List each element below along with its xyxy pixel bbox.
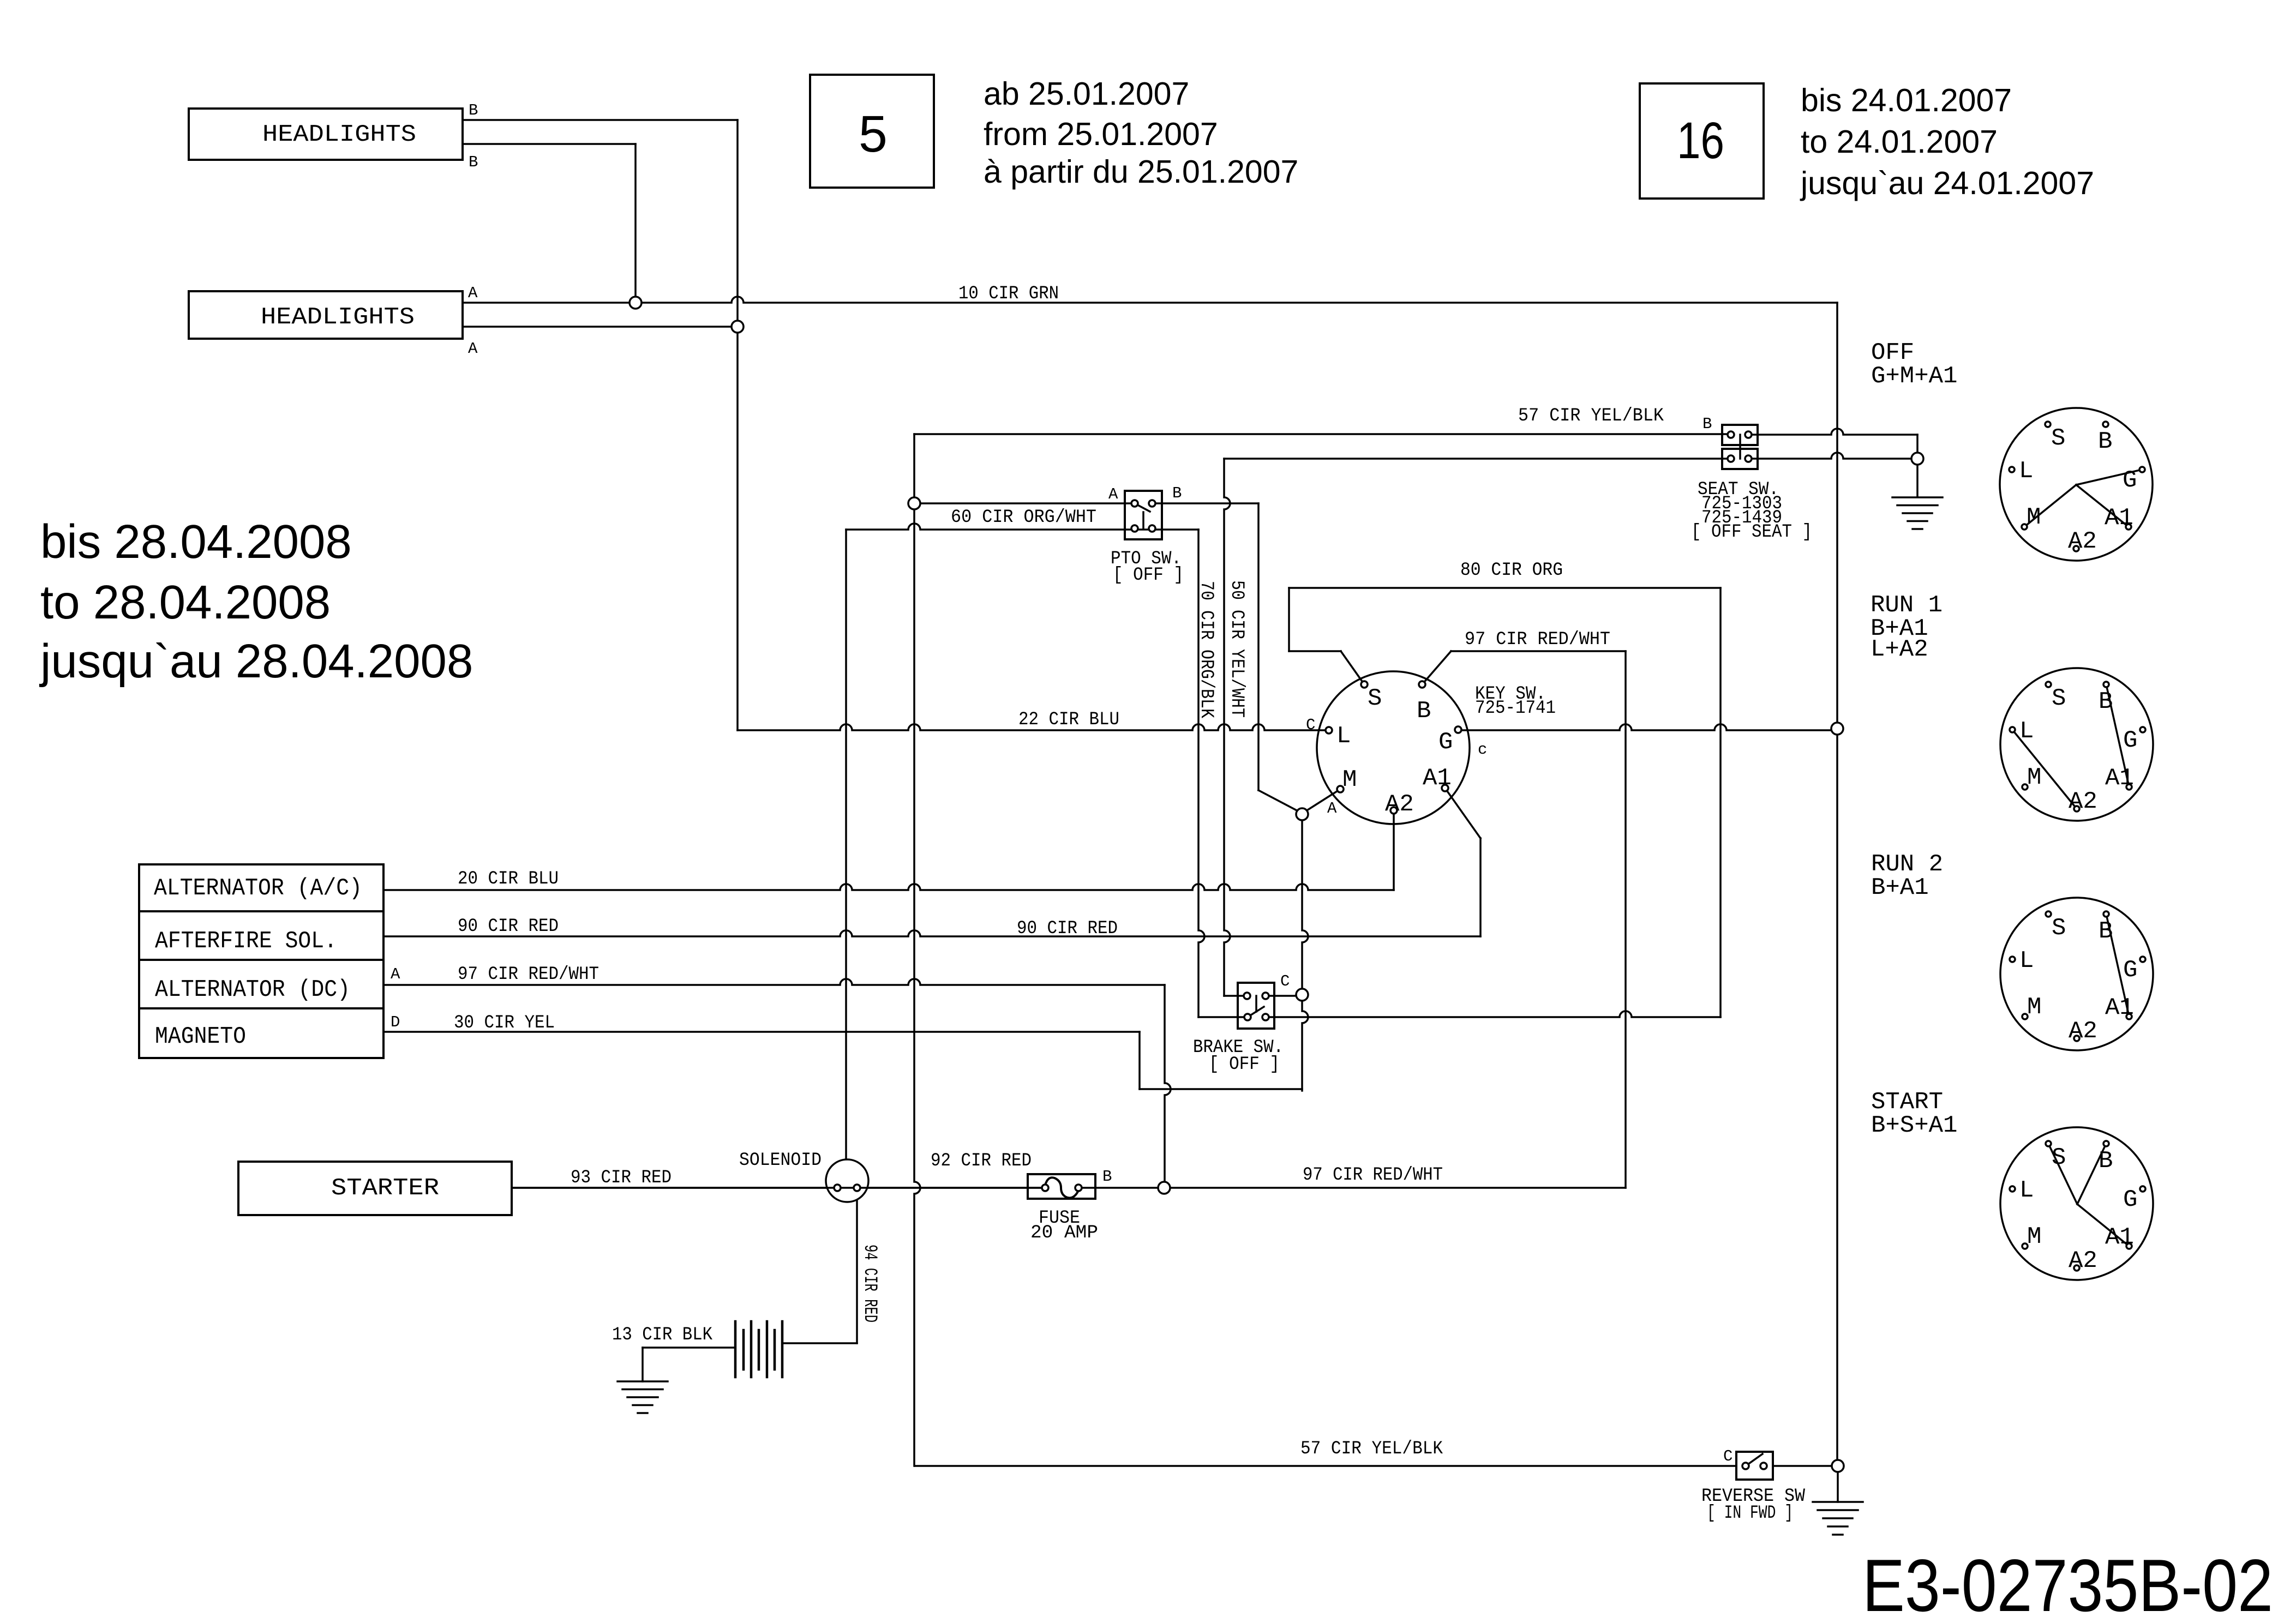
wire 97 CIR RED/WHT from B pin horizontal [1451, 650, 1626, 652]
svg-text:A: A [1108, 485, 1118, 503]
key switch U1 circle [1317, 671, 1470, 824]
svg-text:D: D [391, 1013, 400, 1031]
svg-text:50 CIR YEL/WHT: 50 CIR YEL/WHT [1226, 580, 1247, 718]
svg-text:S: S [1368, 685, 1382, 712]
wire key A drop to brake C [1302, 814, 1308, 1091]
wire diagonal PTO-B drop to A junction [1258, 790, 1299, 812]
wire 80 CIR ORG [1289, 587, 1720, 589]
wire 10 CIR GRN [463, 297, 1837, 303]
svg-text:G: G [2123, 957, 2137, 984]
svg-text:G: G [2123, 1186, 2137, 1213]
svg-text:HEADLIGHTS: HEADLIGHTS [262, 121, 416, 148]
svg-text:13 CIR BLK: 13 CIR BLK [612, 1325, 713, 1345]
brake switch box [1238, 983, 1274, 1029]
svg-text:C: C [1280, 972, 1290, 990]
wire 57 CIR YEL/BLK seat to ground drop [1748, 429, 1917, 435]
ground at seat switch [1892, 496, 1943, 498]
svg-text:G: G [1438, 729, 1453, 756]
svg-text:A: A [468, 284, 478, 302]
wire B from PTO switch [1152, 502, 1258, 504]
svg-text:S: S [2051, 425, 2065, 452]
svg-text:jusqu`au 24.01.2007: jusqu`au 24.01.2007 [1800, 165, 2094, 201]
wire 97 CIR RED/WHT fuse to riser [1078, 1187, 1626, 1189]
seat switch interconnect [1739, 435, 1741, 459]
junction nodes [630, 297, 642, 309]
svg-text:c: c [1478, 741, 1487, 759]
wire 97 CIR RED/WHT drop to fuse junction [1165, 985, 1171, 1188]
seat switch box lower [1722, 449, 1758, 469]
svg-text:10 CIR GRN: 10 CIR GRN [958, 284, 1059, 304]
wire PTO B drop [1257, 503, 1260, 790]
wire 60 CIR ORG/WHT through PTO bottom pins [846, 524, 1198, 530]
svg-text:A2: A2 [1385, 791, 1414, 818]
svg-text:B: B [1102, 1168, 1112, 1186]
wire diagonal A1 pin to riser [1445, 788, 1480, 838]
fuse element [1045, 1177, 1078, 1198]
svg-text:A1: A1 [2105, 994, 2134, 1021]
wire 97 CIR RED/WHT right vertical [1624, 651, 1627, 1188]
wire headlight B2 drop [634, 144, 637, 303]
svg-text:M: M [2027, 504, 2041, 531]
headlights box 2 [189, 291, 463, 339]
legend box 16 [1640, 83, 1764, 199]
svg-text:S: S [2052, 685, 2066, 712]
wire 97 CIR RED/WHT from alternator DC [383, 979, 1165, 985]
wire diagonal to S pin [1341, 651, 1364, 684]
wire 57 CIR YEL/BLK top left [914, 433, 1731, 435]
svg-text:E3-02735B-02: E3-02735B-02 [1862, 1544, 2273, 1623]
svg-text:G: G [2123, 727, 2137, 754]
wire 90 CIR RED [383, 930, 1480, 936]
wire diagonal M pin to A junction [1304, 789, 1340, 812]
svg-text:L: L [2019, 458, 2033, 485]
component pins [1131, 500, 1138, 507]
wire seat switch lower right to ground junction [1748, 453, 1917, 459]
svg-text:to 24.01.2007: to 24.01.2007 [1801, 124, 1998, 160]
wire headlight1 pin B top [463, 119, 738, 121]
svg-text:jusqu`au 28.04.2008: jusqu`au 28.04.2008 [39, 635, 473, 688]
wire A2 drop [1393, 810, 1395, 890]
svg-text:20 AMP: 20 AMP [1030, 1223, 1098, 1243]
svg-text:M: M [1342, 766, 1357, 794]
svg-text:B+A1: B+A1 [1871, 874, 1929, 901]
wire brake switch bottom left [1198, 1016, 1248, 1018]
svg-text:B: B [2099, 688, 2113, 716]
svg-text:to 28.04.2008: to 28.04.2008 [40, 576, 331, 629]
fuse box [1028, 1174, 1095, 1199]
svg-text:AFTERFIRE SOL.: AFTERFIRE SOL. [155, 928, 337, 955]
wire 80 CIR ORG to S pin horizontal [1289, 650, 1341, 652]
wire A1 drop to 90 CIR RED [1479, 838, 1482, 936]
wire 57 CIR YEL/BLK bottom run [915, 1465, 1736, 1467]
wire 57 CIR YEL/BLK vertical [914, 434, 920, 1466]
battery plates [734, 1321, 737, 1377]
wire headlight1 pin B bottom [463, 143, 636, 145]
svg-text:MAGNETO: MAGNETO [155, 1023, 246, 1050]
svg-text:L: L [1336, 723, 1351, 750]
key position circle START [2000, 1127, 2153, 1280]
svg-text:70 CIR ORG/BLK: 70 CIR ORG/BLK [1196, 581, 1216, 719]
svg-text:22 CIR BLU: 22 CIR BLU [1018, 710, 1119, 730]
PTO switch box [1125, 491, 1162, 539]
svg-text:A2: A2 [2069, 1247, 2097, 1275]
brake switch lever [1255, 996, 1257, 1012]
key position circle OFF [2000, 408, 2153, 561]
svg-text:B: B [1417, 698, 1431, 725]
svg-text:G: G [2123, 467, 2137, 494]
svg-text:STARTER: STARTER [331, 1175, 439, 1202]
svg-text:C: C [1723, 1447, 1733, 1465]
wire 93/92 CIR RED starter-solenoid-fuse run [512, 1187, 1045, 1189]
svg-text:ALTERNATOR (DC): ALTERNATOR (DC) [155, 976, 350, 1003]
svg-text:90 CIR RED: 90 CIR RED [458, 916, 559, 937]
svg-text:B: B [469, 101, 478, 119]
svg-text:C: C [1306, 716, 1315, 734]
wire A to PTO switch [914, 502, 1135, 504]
svg-text:A2: A2 [2068, 528, 2097, 555]
svg-text:60 CIR ORG/WHT: 60 CIR ORG/WHT [951, 507, 1096, 528]
svg-text:97 CIR RED/WHT: 97 CIR RED/WHT [1303, 1165, 1443, 1186]
svg-text:ab 25.01.2007: ab 25.01.2007 [984, 76, 1189, 112]
svg-text:G+M+A1: G+M+A1 [1871, 363, 1957, 390]
svg-text:B: B [1172, 484, 1182, 502]
wire 30 CIR YEL [383, 1031, 1140, 1033]
svg-text:5: 5 [859, 105, 888, 163]
engine connector box (alternator/afterfire/alternator DC/magneto) [139, 864, 383, 1058]
PTO switch lever [1135, 503, 1150, 512]
svg-text:M: M [2027, 994, 2041, 1021]
wire 10 CIR GRN vertical [1836, 303, 1838, 1466]
svg-text:A2: A2 [2069, 1018, 2097, 1045]
wire magneto loop bottom [1140, 1088, 1302, 1090]
wire brake switch top left [1224, 995, 1247, 997]
svg-text:A1: A1 [2105, 504, 2133, 532]
svg-text:A: A [468, 340, 478, 358]
svg-text:97 CIR RED/WHT: 97 CIR RED/WHT [1465, 629, 1610, 650]
wire brake switch bottom right to seat riser [1266, 1011, 1720, 1017]
wire 70 CIR ORG/BLK vertical [1198, 530, 1204, 1017]
wire 94 CIR RED vertical [856, 1188, 858, 1343]
svg-text:B: B [469, 153, 478, 171]
svg-text:L: L [2019, 718, 2034, 745]
wire headlight2 pin A bottom [463, 326, 738, 328]
key switch pins [1361, 681, 1368, 688]
svg-text:57 CIR YEL/BLK: 57 CIR YEL/BLK [1300, 1439, 1443, 1459]
wire 20 CIR BLU [383, 884, 1394, 890]
ground at battery [618, 1380, 668, 1382]
seat switch box upper [1722, 425, 1758, 445]
wire 80 CIR ORG elbow vertical [1288, 588, 1290, 651]
svg-text:B: B [2099, 918, 2113, 945]
svg-text:[ OFF ]: [ OFF ] [1113, 565, 1184, 586]
wire battery positive to 94 CIR RED riser [782, 1342, 857, 1344]
svg-text:93 CIR RED: 93 CIR RED [571, 1168, 672, 1188]
svg-text:M: M [2027, 764, 2041, 791]
svg-text:B: B [2098, 428, 2112, 455]
wire diagonal from B pin [1422, 651, 1451, 684]
wire magneto elbow [1138, 1032, 1141, 1089]
svg-text:L: L [2019, 947, 2034, 975]
reverse switch box [1736, 1452, 1773, 1480]
ground at reverse switch [1813, 1501, 1863, 1503]
svg-text:L: L [2019, 1177, 2034, 1204]
wire key switch G to 10 CIR GRN junction [1458, 724, 1837, 730]
svg-text:[ IN FWD ]: [ IN FWD ] [1707, 1503, 1793, 1524]
wire seat switch lower left [1224, 458, 1731, 460]
svg-text:57 CIR YEL/BLK: 57 CIR YEL/BLK [1518, 406, 1664, 426]
svg-text:[ OFF ]: [ OFF ] [1209, 1054, 1280, 1075]
svg-text:90 CIR RED: 90 CIR RED [1017, 918, 1118, 939]
svg-text:HEADLIGHTS: HEADLIGHTS [261, 304, 415, 331]
svg-text:ALTERNATOR (A/C): ALTERNATOR (A/C) [154, 875, 362, 902]
solenoid circle [826, 1159, 868, 1202]
svg-text:92 CIR RED: 92 CIR RED [931, 1151, 1032, 1171]
wire seat switch right drop to ground [1916, 435, 1919, 497]
svg-text:à partir du 25.01.2007: à partir du 25.01.2007 [984, 154, 1298, 190]
svg-text:B: B [2099, 1147, 2113, 1175]
key position circle RUN1 [2000, 668, 2153, 821]
svg-text:bis 24.01.2007: bis 24.01.2007 [1801, 82, 2012, 118]
svg-text:80 CIR ORG: 80 CIR ORG [1460, 560, 1563, 581]
key position circle RUN2 [2000, 898, 2153, 1050]
svg-text:A: A [1327, 800, 1337, 817]
svg-text:SOLENOID: SOLENOID [739, 1150, 822, 1171]
svg-text:M: M [2027, 1223, 2041, 1251]
reverse switch lever [1746, 1454, 1763, 1466]
svg-text:S: S [2052, 1144, 2066, 1171]
svg-text:A1: A1 [1423, 765, 1452, 792]
wire 60 CIR ORG/WHT drop to solenoid [845, 530, 847, 1160]
svg-text:B+S+A1: B+S+A1 [1871, 1112, 1957, 1139]
svg-text:725-1741: 725-1741 [1475, 698, 1556, 719]
svg-text:30 CIR YEL: 30 CIR YEL [454, 1013, 555, 1033]
headlights box 1 [189, 109, 463, 160]
svg-text:A1: A1 [2105, 1224, 2134, 1251]
svg-text:97 CIR RED/WHT: 97 CIR RED/WHT [458, 964, 599, 985]
wire 50 CIR YEL/WHT vertical [1224, 459, 1230, 996]
wire 13 CIR BLK battery negative [643, 1347, 735, 1349]
svg-text:S: S [2052, 915, 2066, 942]
starter box [238, 1162, 512, 1215]
wire ground drop below reverse junction [1837, 1466, 1839, 1502]
svg-text:B: B [1702, 415, 1712, 433]
svg-text:[ OFF SEAT ]: [ OFF SEAT ] [1691, 522, 1812, 543]
svg-text:L+A2: L+A2 [1871, 636, 1928, 663]
wire brake switch top right to C junction [1266, 995, 1302, 997]
svg-text:94 CIR RED: 94 CIR RED [859, 1245, 880, 1323]
svg-text:from 25.01.2007: from 25.01.2007 [984, 116, 1218, 152]
svg-text:A1: A1 [2105, 765, 2134, 792]
wire battery negative ground drop [642, 1348, 644, 1381]
svg-text:20 CIR BLU: 20 CIR BLU [458, 869, 559, 889]
svg-text:16: 16 [1677, 112, 1724, 170]
svg-text:A: A [391, 965, 400, 983]
svg-text:A2: A2 [2069, 788, 2097, 815]
svg-text:bis 28.04.2008: bis 28.04.2008 [40, 515, 352, 568]
wire reverse switch to ground junction [1773, 1465, 1838, 1467]
legend box 5 [810, 75, 934, 188]
wire 22 CIR BLU to key switch L [738, 724, 1329, 730]
wire headlight B1 drop [736, 120, 739, 730]
wire 80 CIR ORG right riser [1719, 588, 1722, 1017]
